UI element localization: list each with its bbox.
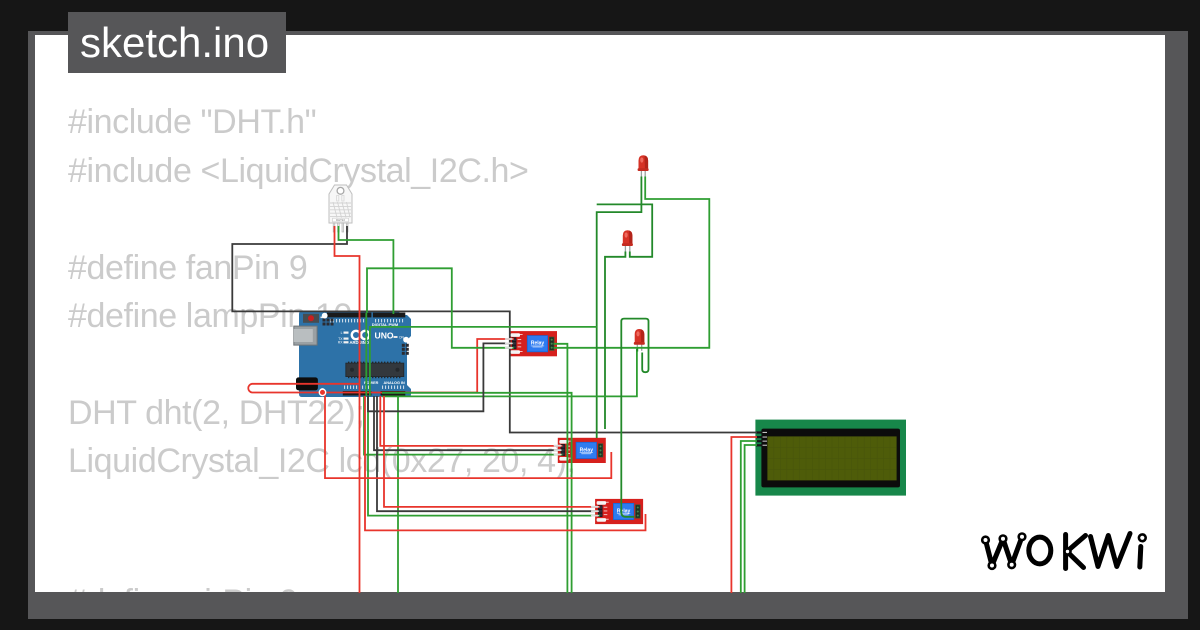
led LED3 [634, 329, 645, 351]
svg-text:RX: RX [338, 341, 343, 345]
wire: black Arduino GND to relay K2 [374, 396, 563, 450]
led LED2 [622, 230, 633, 252]
svg-text:UNO: UNO [375, 331, 394, 341]
wire: black Arduino GND to relay K3 [377, 396, 600, 511]
svg-text:ON: ON [399, 336, 404, 340]
relay K1 pin stubs [505, 338, 513, 349]
led LED1 [638, 155, 649, 177]
relay K2 pin stubs [554, 445, 562, 456]
wire: green Arduino pin to relay K1 IN [367, 268, 514, 348]
svg-text:L: L [341, 331, 343, 335]
wire: green rail tap into Arduino [370, 327, 597, 396]
wokwi logo [986, 534, 1141, 569]
atmega chip [348, 362, 400, 364]
wire: DHT22 red VCC down through Arduino [335, 226, 360, 593]
wire: green relay K3 signal [368, 396, 600, 516]
wire: red relay K2 COM loop [325, 393, 611, 479]
wire: green Arduino to relay K3 right [382, 349, 637, 396]
wire: red relay K3 COM loop [365, 396, 646, 530]
junction node on red bus [319, 389, 325, 395]
wire: red LCD VCC [731, 437, 757, 593]
wire: red Arduino 5V to relay K2 [380, 396, 562, 446]
svg-text:DHT22: DHT22 [336, 218, 345, 222]
wire: green vertical through Arduino [365, 313, 367, 396]
wire: red Arduino 5V to relay K3 [384, 396, 600, 507]
wire: green LED3 frame [621, 319, 648, 517]
dht22 sensor [329, 185, 352, 232]
wire: red U-loop Arduino 5V bus [248, 339, 514, 393]
wire: green LCD SCL [745, 445, 757, 593]
wire: green Arduino to bottom rail 1 [382, 393, 572, 593]
wire: green LED2 anode loop [597, 204, 653, 256]
wire: green LED2 cathode down [605, 252, 625, 430]
wire: DHT22 black GND to LCD (long winding) [232, 226, 757, 433]
wire: green relay K1 NC down rail [554, 344, 568, 593]
wire: DHT22 green data to Arduino pin 2 [339, 226, 394, 314]
relay module K3 [595, 499, 643, 524]
wire: green LED1 anode to relay K1 NO [554, 177, 710, 348]
wire: green LED3 cathode stub [636, 349, 638, 352]
wire: black Arduino GND to relay K1 [368, 343, 514, 411]
wire: green LED1 cathode down left rail [597, 177, 642, 439]
arduino U1 board [294, 311, 411, 397]
svg-text:ANALOG IN: ANALOG IN [384, 381, 406, 385]
relay K3 pin stubs [591, 506, 599, 517]
wire: green LCD SDA [741, 441, 757, 593]
relay module K1 [509, 331, 557, 356]
lcd display LCD1 [755, 420, 906, 496]
relay module K2 [558, 438, 606, 463]
wire: green Arduino GND long vertical [397, 396, 399, 593]
wire: green relay K2 signal [364, 396, 563, 455]
